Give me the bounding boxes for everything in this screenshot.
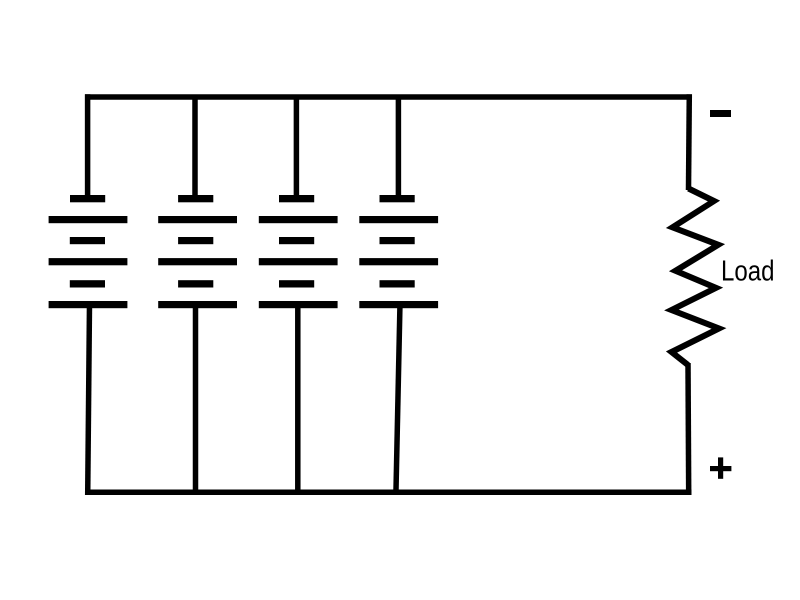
wire: battery B4 top lead [396, 97, 402, 198]
wire: battery B2 bottom lead [193, 303, 199, 490]
wire: top negative rail [85, 94, 692, 100]
battery B1 (3-cell, negative up) [49, 195, 128, 308]
wire: battery B3 bottom lead [295, 303, 301, 490]
svg-text:Load: Load [721, 256, 775, 288]
wire: battery B2 top lead [192, 97, 198, 198]
label: minus sign (negative rail) [710, 110, 731, 117]
wire: battery B4 bottom lead [396, 303, 400, 490]
wire: battery B1 top lead [85, 94, 91, 198]
battery B3 (3-cell, negative up) [259, 195, 338, 308]
wire: right top lead (rail to resistor) [686, 94, 692, 190]
battery B4 (3-cell, negative up) [359, 195, 438, 308]
wire: right bottom lead (resistor to rail) [685, 363, 691, 495]
wire: battery B3 top lead [294, 97, 300, 198]
wire: bottom positive rail [85, 489, 692, 495]
wire: battery B1 bottom lead [88, 303, 90, 495]
battery B2 (3-cell, negative up) [158, 195, 237, 308]
label: plus sign (positive rail) [710, 457, 731, 478]
resistor R1 "Load" zigzag [672, 189, 720, 366]
